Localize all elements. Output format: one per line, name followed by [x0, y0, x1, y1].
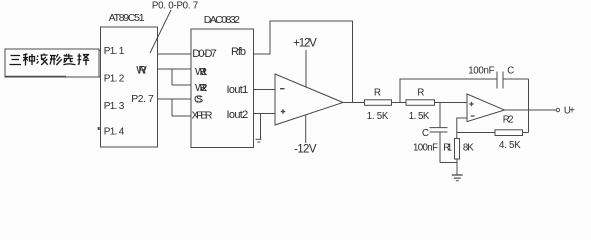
svg-text:CS: CS: [194, 94, 203, 106]
svg-text:4. 5K: 4. 5K: [499, 140, 521, 151]
svg-text:1. 5K: 1. 5K: [409, 111, 430, 122]
svg-text:100nF: 100nF: [468, 65, 494, 76]
svg-text:100nF: 100nF: [413, 143, 438, 154]
svg-text:P0. 0-P0. 7: P0. 0-P0. 7: [152, 1, 198, 12]
svg-text:WR1: WR1: [195, 66, 208, 78]
svg-text:C: C: [422, 128, 429, 139]
svg-text:R1: R1: [443, 143, 452, 154]
svg-text:Iout1: Iout1: [227, 84, 249, 96]
svg-text:+12V: +12V: [293, 38, 317, 50]
svg-text:P1. 4: P1. 4: [104, 126, 125, 137]
svg-text:1. 5K: 1. 5K: [367, 111, 389, 122]
svg-text:P1. 1: P1. 1: [104, 46, 125, 57]
svg-text:-12V: -12V: [294, 144, 317, 156]
svg-text:XFER: XFER: [192, 110, 213, 122]
svg-text:R: R: [417, 88, 424, 99]
svg-text:P1. 3: P1. 3: [104, 101, 125, 112]
svg-text:Rfb: Rfb: [231, 46, 246, 58]
svg-text:DAC0832: DAC0832: [204, 14, 240, 26]
svg-text:C: C: [507, 66, 514, 77]
svg-text:P1. 2: P1. 2: [104, 73, 125, 84]
svg-text:AT89C51: AT89C51: [109, 12, 145, 24]
svg-text:WR: WR: [136, 65, 147, 77]
svg-text:Iout2: Iout2: [227, 109, 249, 121]
svg-text:R2: R2: [503, 114, 514, 125]
svg-text:8K: 8K: [463, 143, 474, 154]
svg-text:WR2: WR2: [195, 82, 208, 94]
svg-text:R: R: [374, 88, 381, 99]
svg-text:P2. 7: P2. 7: [131, 93, 154, 105]
svg-text:D0-D7: D0-D7: [192, 48, 217, 60]
svg-text:U+: U+: [564, 106, 575, 117]
